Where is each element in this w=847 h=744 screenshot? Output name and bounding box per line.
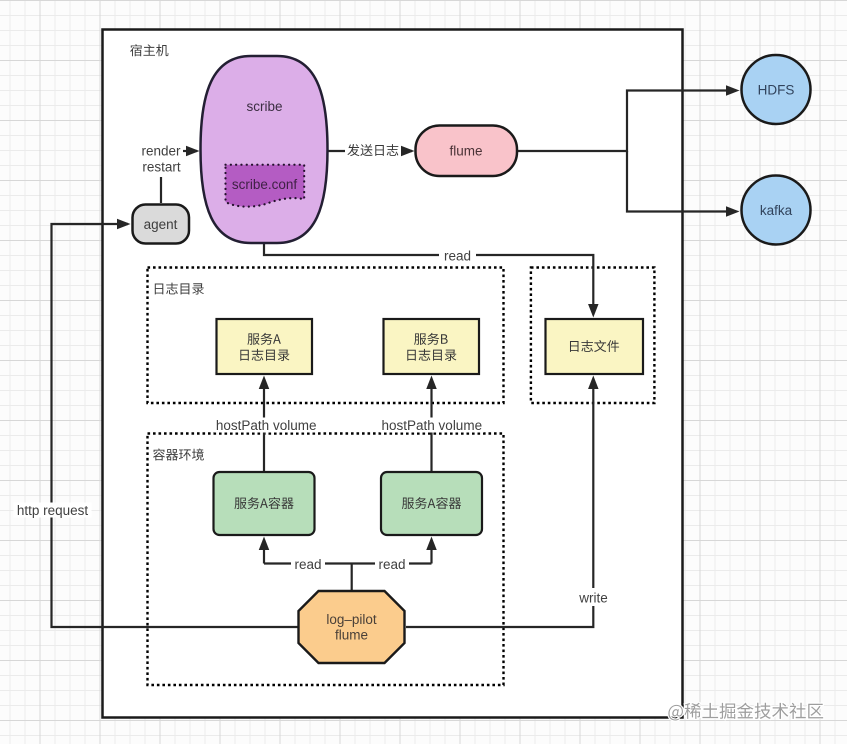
svg-text:restart: restart [142, 160, 181, 175]
svg-text:http request: http request [17, 503, 89, 518]
svg-text:read: read [294, 557, 321, 572]
svg-text:flume: flume [335, 628, 368, 643]
svg-text:read: read [444, 249, 471, 264]
svg-text:agent: agent [144, 217, 178, 232]
svg-text:flume: flume [449, 144, 482, 159]
svg-text:render: render [141, 144, 181, 159]
svg-text:hostPath volume: hostPath volume [216, 418, 317, 433]
svg-text:hostPath volume: hostPath volume [382, 418, 483, 433]
svg-text:log–pilot: log–pilot [326, 612, 377, 627]
svg-text:write: write [578, 591, 608, 606]
svg-text:kafka: kafka [760, 203, 793, 218]
svg-text:scribe: scribe [246, 99, 282, 114]
svg-text:read: read [378, 557, 405, 572]
svg-text:HDFS: HDFS [758, 83, 795, 98]
svg-text:scribe.conf: scribe.conf [232, 177, 298, 192]
